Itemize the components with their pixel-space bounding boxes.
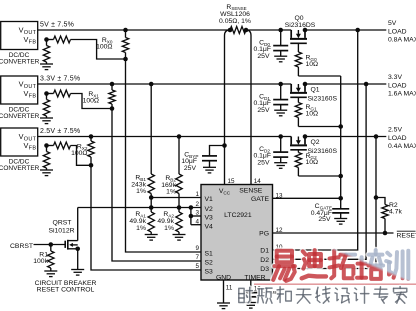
node CD1 junction xyxy=(278,82,283,87)
resistor VFB-gnd row RX1 xyxy=(46,94,48,100)
svg-text:10Ω: 10Ω xyxy=(306,159,319,166)
capacitor CD1 0.1uF xyxy=(280,84,282,99)
node VFB junction row RX1 xyxy=(44,91,49,96)
wire V1 to pin 1 xyxy=(151,197,201,199)
U1 pin numbers xyxy=(195,178,283,292)
svg-text:CONVERTER: CONVERTER xyxy=(0,165,40,172)
ground below CD0 xyxy=(274,55,287,57)
svg-text:10Ω: 10Ω xyxy=(306,110,319,117)
node VFB junction row RX0 xyxy=(44,37,49,42)
svg-text:V2: V2 xyxy=(205,206,214,213)
wire CBYP to ground xyxy=(209,161,211,168)
wire RG0 to gate bus xyxy=(298,75,340,77)
ground below CD2 xyxy=(274,162,287,164)
U1 pin name labels xyxy=(205,188,270,282)
svg-text:1.6A MAX: 1.6A MAX xyxy=(388,91,416,98)
svg-text:25V: 25V xyxy=(318,216,331,223)
svg-text:1%: 1% xyxy=(164,225,174,232)
svg-text:25V: 25V xyxy=(257,159,270,166)
ground below RA2 xyxy=(173,234,186,236)
capacitor CD0 0.1uF xyxy=(280,30,282,45)
resistor series from VFB row RX1 xyxy=(54,90,71,97)
wire bracket V3 xyxy=(190,208,192,217)
resistor RG1 10&#937; xyxy=(297,97,299,102)
wire CD1 to ground xyxy=(280,105,282,111)
node RA1 top junction xyxy=(149,205,154,210)
node CBYP tap on VCC line xyxy=(222,143,227,148)
ground below R1 xyxy=(44,270,57,272)
wire 3.3V monitor down to D2 xyxy=(273,84,367,259)
wire RX0 node down to S1 xyxy=(126,59,202,252)
ground below VFB resistor row RX0 xyxy=(40,63,53,65)
wire CD0 to ground xyxy=(280,51,282,57)
wire TIMER pin 16 to CTIMER xyxy=(250,280,252,292)
node gate bus RG2 junction xyxy=(338,174,343,179)
watermark gray text line 2 xyxy=(239,287,407,304)
svg-text:SENSE: SENSE xyxy=(239,188,263,195)
node 3.3V monitor tap xyxy=(364,82,369,87)
wire RX2 node down to S3 xyxy=(91,165,201,270)
wire 2.5V rail xyxy=(38,136,292,138)
resistor VFB-gnd row RX2 xyxy=(46,146,48,152)
svg-text:10Ω: 10Ω xyxy=(306,61,319,68)
net label RESET (active low) xyxy=(397,230,416,232)
watermark red text line 1 xyxy=(254,250,416,284)
resistor RA1 49.9k xyxy=(150,208,152,213)
resistor R1 100k xyxy=(50,245,52,252)
ground below CGATE xyxy=(334,218,347,220)
svg-text:Q2: Q2 xyxy=(311,139,320,146)
resistor RA2 49.9k xyxy=(178,208,180,213)
wire 2.5V rail Q2 source to load xyxy=(305,136,386,138)
wire 5V rail from converter1 VOUT to RSENSE xyxy=(38,29,230,31)
ground below VFB resistor row RX2 xyxy=(40,169,53,171)
resistor RSENSE WSL1206 0.05ohm xyxy=(230,27,246,34)
svg-text:V3: V3 xyxy=(205,215,214,222)
svg-text:100Ω: 100Ω xyxy=(96,44,112,51)
svg-text:CBRST: CBRST xyxy=(10,243,33,250)
wire VFB to RX0 bottom xyxy=(47,39,54,41)
svg-text:3.3V: 3.3V xyxy=(388,74,402,81)
svg-text:0.4A MAX: 0.4A MAX xyxy=(388,143,416,150)
wire 3.3V rail xyxy=(38,83,292,85)
wire PG pin 12 to RESET xyxy=(273,232,394,234)
wire 5V rail Q0 source to load xyxy=(305,29,386,31)
resistor RG0 10&#937; xyxy=(297,43,299,52)
resistor RB1 243k xyxy=(150,84,152,174)
svg-text:25V: 25V xyxy=(257,107,270,114)
svg-text:V4: V4 xyxy=(205,223,214,230)
svg-text:RESET CONTROL: RESET CONTROL xyxy=(37,286,95,293)
capacitor CD2 0.1uF xyxy=(280,137,282,152)
resistor RB2 169k xyxy=(178,137,180,175)
ground below VFB resistor row RX1 xyxy=(40,117,53,119)
svg-text:LOAD: LOAD xyxy=(388,28,407,35)
node 5V monitor tap xyxy=(355,28,360,33)
svg-text:9: 9 xyxy=(195,245,199,252)
wire RX1 node down to S2 xyxy=(112,109,201,262)
wire RSENSE right to SENSE pin 14 xyxy=(246,30,251,185)
svg-text:PG: PG xyxy=(259,231,269,238)
svg-text:5: 5 xyxy=(195,263,199,270)
node 2.5V/RX2 junction xyxy=(89,134,94,139)
wire 3.3V rail Q1 source to load xyxy=(305,83,386,85)
capacitor CTIMER xyxy=(244,292,258,294)
node R2 bottom junction xyxy=(383,231,388,236)
wire 5V rail RSENSE right to Q0 drain xyxy=(246,29,291,31)
svg-text:100Ω: 100Ω xyxy=(71,150,87,157)
wire V1-node to RA1-node xyxy=(150,198,152,208)
svg-text:7: 7 xyxy=(195,254,199,261)
wire GND pin 11 to ground xyxy=(223,280,225,303)
capacitor CBYP 10uF xyxy=(202,155,217,157)
svg-text:S1: S1 xyxy=(205,251,214,258)
svg-text:1%: 1% xyxy=(136,188,146,195)
node 3.3V/RX1 junction xyxy=(110,82,115,87)
node RA2 divider junction xyxy=(177,205,182,210)
svg-text:D2: D2 xyxy=(260,257,269,264)
node RX2 bottom junction xyxy=(89,163,94,168)
svg-text:3.3V ± 7.5%: 3.3V ± 7.5% xyxy=(40,76,80,83)
ground below CTIMER xyxy=(244,302,257,304)
wire RG1 to gate bus xyxy=(298,126,340,128)
DC/DC converter block 1 xyxy=(0,22,40,66)
svg-text:GATE: GATE xyxy=(251,196,269,203)
svg-text:LOAD: LOAD xyxy=(388,82,407,89)
transistor Q1 Si23160S xyxy=(290,82,307,98)
node 2.5V/RB2 junction xyxy=(177,134,182,139)
ground at GND pin xyxy=(217,302,230,304)
resistor RX1 100&#937; xyxy=(111,84,113,90)
svg-text:100Ω: 100Ω xyxy=(83,98,99,105)
svg-text:1%: 1% xyxy=(166,189,176,196)
svg-text:2.5V: 2.5V xyxy=(388,127,402,134)
svg-text:5V ± 7.5%: 5V ± 7.5% xyxy=(40,22,74,29)
svg-text:TIMER: TIMER xyxy=(244,274,265,281)
wire CD2 to ground xyxy=(280,157,282,163)
svg-text:2.5V ± 7.5%: 2.5V ± 7.5% xyxy=(40,128,80,135)
svg-text:Si2316DS: Si2316DS xyxy=(285,22,316,29)
ground below CBYP xyxy=(203,166,216,168)
svg-text:15: 15 xyxy=(228,178,236,185)
svg-text:Si1012R: Si1012R xyxy=(48,228,74,235)
wire RG2 to gate bus xyxy=(298,175,340,177)
node CD0 junction xyxy=(278,28,283,33)
transistor QRST Si1012R xyxy=(65,208,80,270)
wire CTIMER to ground xyxy=(250,297,252,303)
node 2.5V monitor tap xyxy=(374,134,379,139)
wire gate bus vertical xyxy=(340,76,342,198)
node bracket V3 junction xyxy=(189,214,194,219)
wire VFB to RX2 bottom xyxy=(47,145,54,147)
node V1 divider junction xyxy=(149,195,154,200)
wire CGATE to ground xyxy=(340,213,342,219)
svg-text:Q1: Q1 xyxy=(311,87,320,94)
capacitor CGATE 0.47uF xyxy=(340,198,342,208)
node VFB junction row RX2 xyxy=(44,143,49,148)
node RX1 bottom junction xyxy=(110,106,115,111)
svg-text:RESET: RESET xyxy=(397,232,416,239)
resistor series from VFB row RX0 xyxy=(54,36,71,43)
svg-text:Si23160S: Si23160S xyxy=(308,95,338,102)
svg-text:D1: D1 xyxy=(260,247,269,254)
svg-text:CONVERTER: CONVERTER xyxy=(0,59,40,66)
node RX0 bottom junction xyxy=(123,57,128,62)
wire CBYP elbow xyxy=(210,146,225,156)
node 3.3V/RB1 junction xyxy=(149,82,154,87)
resistor RX0 100&#937; xyxy=(125,30,127,38)
node R2 top tap on 2.5V monitor xyxy=(374,195,379,200)
transistor Q0 Si2316DS xyxy=(290,28,307,44)
wire GATE pin 13 to gate bus xyxy=(273,197,341,199)
resistor R2 4.7k xyxy=(376,198,385,205)
transistor Q2 Si23160S xyxy=(290,134,307,150)
svg-text:QRST: QRST xyxy=(53,220,72,227)
DC/DC converter block 2 xyxy=(0,76,40,120)
resistor RX2 100&#937; xyxy=(90,137,92,142)
svg-text:0.05Ω, 1%: 0.05Ω, 1% xyxy=(219,18,251,25)
svg-text:0.8A MAX: 0.8A MAX xyxy=(388,37,416,44)
svg-text:5V: 5V xyxy=(388,20,397,27)
ground below CD1 xyxy=(274,109,287,111)
wire RSENSE left to VCC pin 15 xyxy=(225,30,231,185)
ground below QRST source xyxy=(71,269,84,271)
svg-text:1%: 1% xyxy=(136,225,146,232)
svg-text:LTC2921: LTC2921 xyxy=(224,212,252,219)
node CD2 junction xyxy=(278,134,283,139)
svg-text:25V: 25V xyxy=(184,165,197,172)
wire 5V monitor down to D1 xyxy=(273,30,358,250)
wire bracket V4 xyxy=(190,216,192,225)
svg-text:Si23160S: Si23160S xyxy=(308,148,338,155)
op-amp U1 LTC2921 body xyxy=(201,185,273,281)
svg-text:D3: D3 xyxy=(260,266,269,273)
resistor series from VFB row RX2 xyxy=(54,142,71,149)
svg-text:100k: 100k xyxy=(33,258,48,265)
node R1 junction xyxy=(49,242,54,247)
svg-text:S2: S2 xyxy=(205,260,214,267)
wire VFB to RX1 bottom xyxy=(47,93,54,95)
svg-text:LOAD: LOAD xyxy=(388,135,407,142)
resistor VFB-gnd row RX0 xyxy=(46,40,48,46)
svg-text:25V: 25V xyxy=(257,53,270,60)
svg-text:11: 11 xyxy=(226,284,233,291)
wire CBRST to QRST gate xyxy=(34,244,65,246)
wire 2.5V monitor down to D3 xyxy=(273,137,377,269)
svg-text:V1: V1 xyxy=(205,196,214,203)
svg-text:4.7k: 4.7k xyxy=(389,209,402,216)
node 5V/RX0 junction xyxy=(123,28,128,33)
node V2/V3/V4 bracket top xyxy=(189,205,194,210)
wire QRST drain to V2 node xyxy=(78,207,201,209)
svg-text:S3: S3 xyxy=(205,269,214,276)
svg-text:CONVERTER: CONVERTER xyxy=(0,113,40,120)
svg-text:14: 14 xyxy=(254,178,262,185)
ground below RA1 xyxy=(145,234,158,236)
DC/DC converter block 3 xyxy=(0,128,40,172)
resistor RG2 10&#937; xyxy=(297,150,299,153)
node gate bus RG1 junction xyxy=(338,124,343,129)
node GATE/CGATE junction xyxy=(338,196,343,201)
